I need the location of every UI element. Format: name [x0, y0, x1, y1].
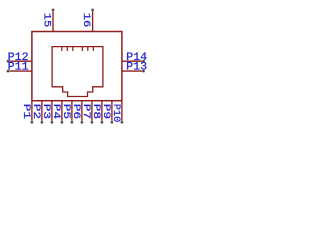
- pin P14 wire: [122, 60, 144, 62]
- svg-text:P8: P8: [91, 104, 102, 120]
- pin P3 endpoint dot: [51, 121, 54, 124]
- pin P5 wire: [71, 101, 73, 123]
- pin P4 wire: [61, 101, 63, 123]
- svg-text:P6: P6: [71, 104, 82, 120]
- RJ45 jack outline: [52, 47, 103, 97]
- svg-text:P1: P1: [21, 104, 32, 120]
- svg-text:P10: P10: [111, 104, 122, 123]
- pin P11 wire: [8, 70, 32, 72]
- pin P12 endpoint dot: [7, 60, 10, 63]
- svg-text:15: 15: [42, 13, 53, 28]
- pin P11 endpoint dot: [7, 70, 10, 73]
- pin P1 wire: [31, 101, 33, 123]
- pin P9 endpoint dot: [111, 121, 114, 124]
- pin P14 endpoint dot: [142, 60, 145, 63]
- pin P1 endpoint dot: [31, 121, 34, 124]
- pin 16 endpoint dot: [91, 9, 94, 12]
- svg-text:P5: P5: [61, 104, 72, 120]
- svg-text:16: 16: [81, 13, 92, 28]
- pin P7 endpoint dot: [91, 121, 94, 124]
- pin 16 wire: [92, 10, 94, 32]
- svg-text:P2: P2: [31, 104, 42, 120]
- jack contact teeth: [62, 47, 94, 51]
- pin P8 endpoint dot: [101, 121, 104, 124]
- pin P4 endpoint dot: [61, 121, 64, 124]
- pin P6 endpoint dot: [81, 121, 84, 124]
- pin P9 wire: [111, 101, 113, 123]
- pin P10 endpoint dot: [121, 121, 124, 124]
- pin P2 wire: [41, 101, 43, 123]
- svg-text:P4: P4: [51, 104, 62, 120]
- pin P3 wire: [51, 101, 53, 123]
- pin 15 wire: [52, 10, 54, 32]
- svg-text:P3: P3: [41, 104, 52, 120]
- pin P6 wire: [81, 101, 83, 123]
- pin P7 wire: [91, 101, 93, 123]
- connector J1 body: [32, 32, 122, 101]
- pin P2 endpoint dot: [41, 121, 44, 124]
- pin P13 endpoint dot: [142, 70, 145, 73]
- svg-text:P7: P7: [81, 104, 92, 120]
- pin P5 endpoint dot: [71, 121, 74, 124]
- pin P8 wire: [101, 101, 103, 123]
- pin P10 wire: [121, 101, 123, 123]
- pin 15 endpoint dot: [52, 9, 55, 12]
- pin P13 wire: [122, 70, 144, 72]
- pin P12 wire: [8, 60, 32, 62]
- svg-text:P13: P13: [126, 62, 147, 74]
- svg-text:P9: P9: [101, 104, 112, 120]
- svg-text:P11: P11: [8, 62, 29, 74]
